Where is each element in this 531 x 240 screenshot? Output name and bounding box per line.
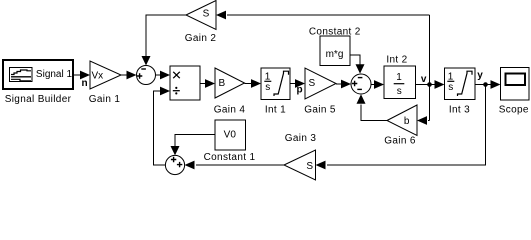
svg-text:p: p	[296, 85, 302, 96]
svg-text:S: S	[306, 161, 313, 172]
wire Int 2 to Int 3 with v node	[416, 84, 436, 86]
svg-text:b: b	[404, 116, 410, 127]
node y junction	[483, 82, 488, 87]
sum Sum 3	[165, 155, 184, 174]
wire Constant 2 down into Sum 2 top	[350, 55, 360, 65]
svg-text:V0: V0	[224, 130, 237, 141]
block Constant 2 (m*g)	[320, 36, 350, 66]
svg-text:s: s	[397, 86, 402, 97]
wire Gain 4 to Int 1	[245, 83, 253, 85]
wire v feedback to Gain 6 input	[428, 120, 430, 122]
svg-text:S: S	[203, 9, 210, 20]
sum Sum 2	[351, 74, 371, 94]
block Scope	[501, 68, 530, 101]
block Int 3 integrator	[445, 68, 476, 100]
block Constant 1 (V0)	[215, 120, 246, 150]
svg-text:y: y	[477, 70, 483, 81]
wire Gain 1 to Sum 1	[121, 74, 128, 76]
svg-text:Gain 5: Gain 5	[304, 104, 336, 115]
sum Sum 1	[137, 66, 156, 85]
gain Gain 4	[215, 68, 245, 98]
gain Gain 1	[90, 61, 121, 89]
svg-text:s: s	[265, 82, 270, 93]
svg-text:Int 3: Int 3	[449, 104, 470, 115]
wire Sum 2 to Int 2	[371, 84, 375, 86]
svg-text:Int 2: Int 2	[386, 55, 407, 66]
wire Int 3 to Scope with y node	[475, 84, 491, 86]
wire Product to Gain 4	[200, 83, 206, 85]
svg-text:Gain 4: Gain 4	[214, 104, 246, 115]
gain Gain 3	[284, 150, 316, 180]
svg-text:v: v	[421, 74, 427, 85]
block Int 1 integrator	[261, 68, 290, 100]
svg-text:B: B	[219, 78, 226, 89]
svg-text:Signal Builder: Signal Builder	[5, 94, 72, 105]
svg-text:s: s	[448, 82, 453, 93]
block Signal Builder	[3, 60, 73, 89]
svg-text:S: S	[309, 78, 316, 89]
svg-text:Gain 1: Gain 1	[89, 94, 121, 105]
gain Gain 5	[305, 68, 336, 99]
svg-text:Int 1: Int 1	[265, 104, 286, 115]
svg-text:Constant 1: Constant 1	[204, 152, 256, 163]
svg-text:Gain 2: Gain 2	[185, 33, 217, 44]
wire v feedback to Gain 2 input	[227, 14, 430, 16]
wire Sum 3 output up to Product divide input	[154, 91, 166, 165]
svg-text:n: n	[81, 78, 87, 89]
svg-text:Vx: Vx	[92, 70, 104, 81]
wire Sum 1 to Product x input	[156, 74, 162, 76]
wire Gain 3 to Sum 3	[196, 164, 284, 166]
gain Gain 2	[186, 1, 216, 30]
wire Int 1 to Gain 5	[290, 83, 296, 85]
wire v vertical feedback	[429, 15, 431, 121]
svg-text:1: 1	[448, 71, 454, 82]
wire y feedback down to Gain 3	[327, 85, 486, 166]
svg-text:m*g: m*g	[326, 49, 344, 60]
block Product (x divide)	[170, 66, 200, 100]
svg-text:1: 1	[265, 71, 271, 82]
svg-text:Gain 6: Gain 6	[384, 136, 416, 147]
gain Gain 6	[387, 105, 417, 136]
svg-text:Scope: Scope	[499, 104, 529, 115]
wire Gain 5 to Sum 2	[336, 83, 341, 85]
wire Gain 6 up into Sum 2 bottom	[361, 105, 387, 121]
block Int 2 integrator	[384, 66, 416, 99]
node v junction	[427, 82, 432, 87]
svg-text:Signal 1: Signal 1	[36, 69, 73, 80]
wire Signal Builder to Gain 1	[74, 74, 81, 76]
wire Constant 1 down into Sum 3 top	[175, 135, 215, 147]
svg-text:1: 1	[396, 72, 402, 83]
wire Gain 2 output down into Sum 1 top	[146, 15, 186, 57]
svg-text:Gain 3: Gain 3	[285, 133, 317, 144]
